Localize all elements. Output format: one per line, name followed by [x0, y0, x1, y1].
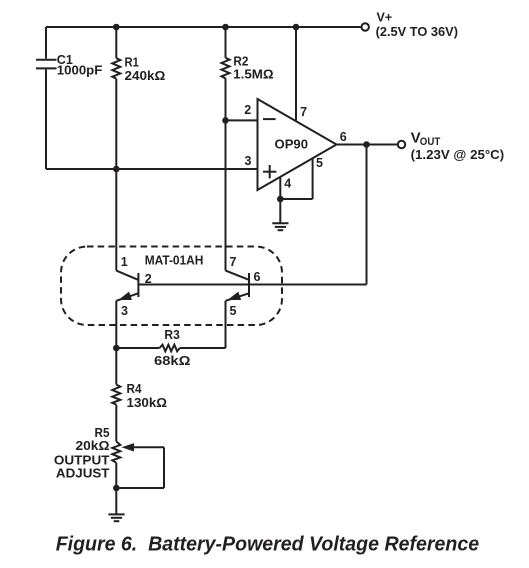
- terminal V+: [362, 23, 369, 30]
- capacitor C1 plates: [36, 60, 57, 69]
- svg-text:Figure 6. Battery-Powered Vol: Figure 6. Battery-Powered Voltage Refere…: [56, 532, 479, 555]
- svg-text:OUTPUT: OUTPUT: [54, 454, 110, 468]
- junction R1 / pin3 rail: [113, 166, 120, 173]
- svg-text:130kΩ: 130kΩ: [127, 396, 168, 410]
- junction output / feedback: [363, 141, 370, 148]
- svg-text:(1.23V @ 25°C): (1.23V @ 25°C): [411, 148, 505, 162]
- wire R1 top lead: [115, 27, 117, 58]
- node VOUT label: [411, 129, 441, 148]
- transistor Q1 emitter diagonal: [116, 293, 138, 301]
- wire feedback drop: [366, 145, 368, 285]
- svg-text:68kΩ: 68kΩ: [154, 354, 191, 368]
- svg-text:R5: R5: [95, 426, 110, 440]
- svg-text:1: 1: [121, 255, 128, 269]
- junction R1 / top rail: [113, 24, 120, 31]
- svg-text:V+: V+: [377, 11, 393, 25]
- junction pin4 / ground: [277, 196, 284, 203]
- wire pin4-pin5 link: [280, 198, 312, 200]
- junction R2 / top rail: [222, 24, 229, 31]
- svg-text:R4: R4: [127, 382, 142, 396]
- svg-text:1.5MΩ: 1.5MΩ: [233, 68, 273, 82]
- transistor Q2 collector diagonal: [226, 271, 249, 280]
- wire left collector drop: [115, 169, 117, 271]
- svg-text:ADJUST: ADJUST: [56, 467, 110, 481]
- wire pin 4: [279, 177, 281, 199]
- wire R2 bottom lead: [225, 78, 227, 120]
- resistor R1: [112, 58, 120, 78]
- resistor R3: [160, 345, 180, 352]
- svg-text:7: 7: [230, 255, 237, 269]
- svg-text:5: 5: [230, 304, 237, 318]
- svg-text:2: 2: [244, 103, 251, 117]
- capacitor C1 bottom lead: [45, 70, 47, 170]
- transistor Q1 collector diagonal: [116, 271, 138, 280]
- junction R5 / wiper: [113, 485, 120, 492]
- ground bottom: [108, 514, 124, 521]
- junction R2 / pin2: [222, 117, 229, 124]
- junction R3 / left column: [113, 345, 120, 352]
- wire wiper return: [116, 487, 164, 489]
- transistor Q2 base bar: [248, 273, 250, 297]
- svg-text:4: 4: [284, 177, 291, 191]
- wire R3 right lead: [180, 347, 226, 349]
- transistor Q1 base bar: [137, 273, 139, 297]
- svg-text:6: 6: [340, 130, 347, 144]
- transistor Q2 emitter arrow: [227, 292, 241, 300]
- resistor R2: [222, 58, 230, 79]
- wire wiper tail: [133, 446, 164, 448]
- svg-text:OUT: OUT: [420, 136, 441, 148]
- wire pin 5: [312, 158, 314, 199]
- wire right collector drop: [225, 120, 227, 270]
- op-amp U1 OP90 triangle: [258, 99, 337, 190]
- svg-text:R3: R3: [164, 328, 179, 342]
- svg-text:OP90: OP90: [275, 137, 309, 151]
- wire R5 bottom lead: [115, 463, 117, 488]
- wire pin 3 rail: [46, 168, 258, 170]
- wire pin 2 input: [226, 119, 258, 121]
- svg-text:R2: R2: [233, 55, 248, 69]
- wire R3 left lead: [116, 347, 159, 349]
- wire V+ top rail: [46, 26, 361, 28]
- wire R4 top lead: [115, 348, 117, 385]
- op-amp plus sign: [263, 165, 276, 178]
- wire ground stub: [279, 199, 281, 223]
- svg-text:(2.5V TO 36V): (2.5V TO 36V): [376, 25, 458, 39]
- wire pin 7 supply: [295, 27, 297, 121]
- wire Q2 emitter column: [225, 301, 227, 348]
- svg-text:1000pF: 1000pF: [57, 63, 103, 77]
- svg-text:3: 3: [121, 304, 128, 318]
- svg-text:6: 6: [254, 270, 261, 284]
- op-amp minus sign: [263, 118, 276, 120]
- resistor R4: [112, 385, 120, 405]
- wire R1 bottom lead: [115, 79, 117, 169]
- capacitor C1 top lead: [45, 27, 47, 59]
- transistor Q2 emitter diagonal: [226, 293, 250, 301]
- wire Q1 emitter column: [115, 301, 117, 348]
- svg-text:20kΩ: 20kΩ: [76, 439, 110, 453]
- resistor R5: [112, 442, 120, 463]
- wire bottom ground stub: [115, 488, 117, 514]
- transistor Q1 emitter arrow: [118, 292, 132, 300]
- svg-text:3: 3: [245, 154, 252, 168]
- svg-text:2: 2: [145, 272, 152, 286]
- ground op-amp: [272, 223, 288, 230]
- wire wiper down: [163, 447, 165, 488]
- wire R4-R5 link: [115, 405, 117, 442]
- terminal VOUT: [398, 141, 405, 148]
- svg-text:240kΩ: 240kΩ: [125, 69, 166, 83]
- wire R2 top lead: [225, 27, 227, 58]
- wire pin 6 output: [337, 144, 398, 146]
- svg-text:7: 7: [300, 105, 307, 119]
- svg-text:R1: R1: [125, 55, 139, 69]
- svg-text:5: 5: [316, 156, 323, 170]
- svg-text:MAT-01AH: MAT-01AH: [145, 254, 204, 268]
- junction pin7 / top rail: [293, 24, 300, 31]
- potentiometer R5 wiper arrow: [122, 443, 135, 451]
- wire base line: [138, 284, 366, 286]
- transistor pair MAT-01AH dashed outline: [61, 247, 282, 326]
